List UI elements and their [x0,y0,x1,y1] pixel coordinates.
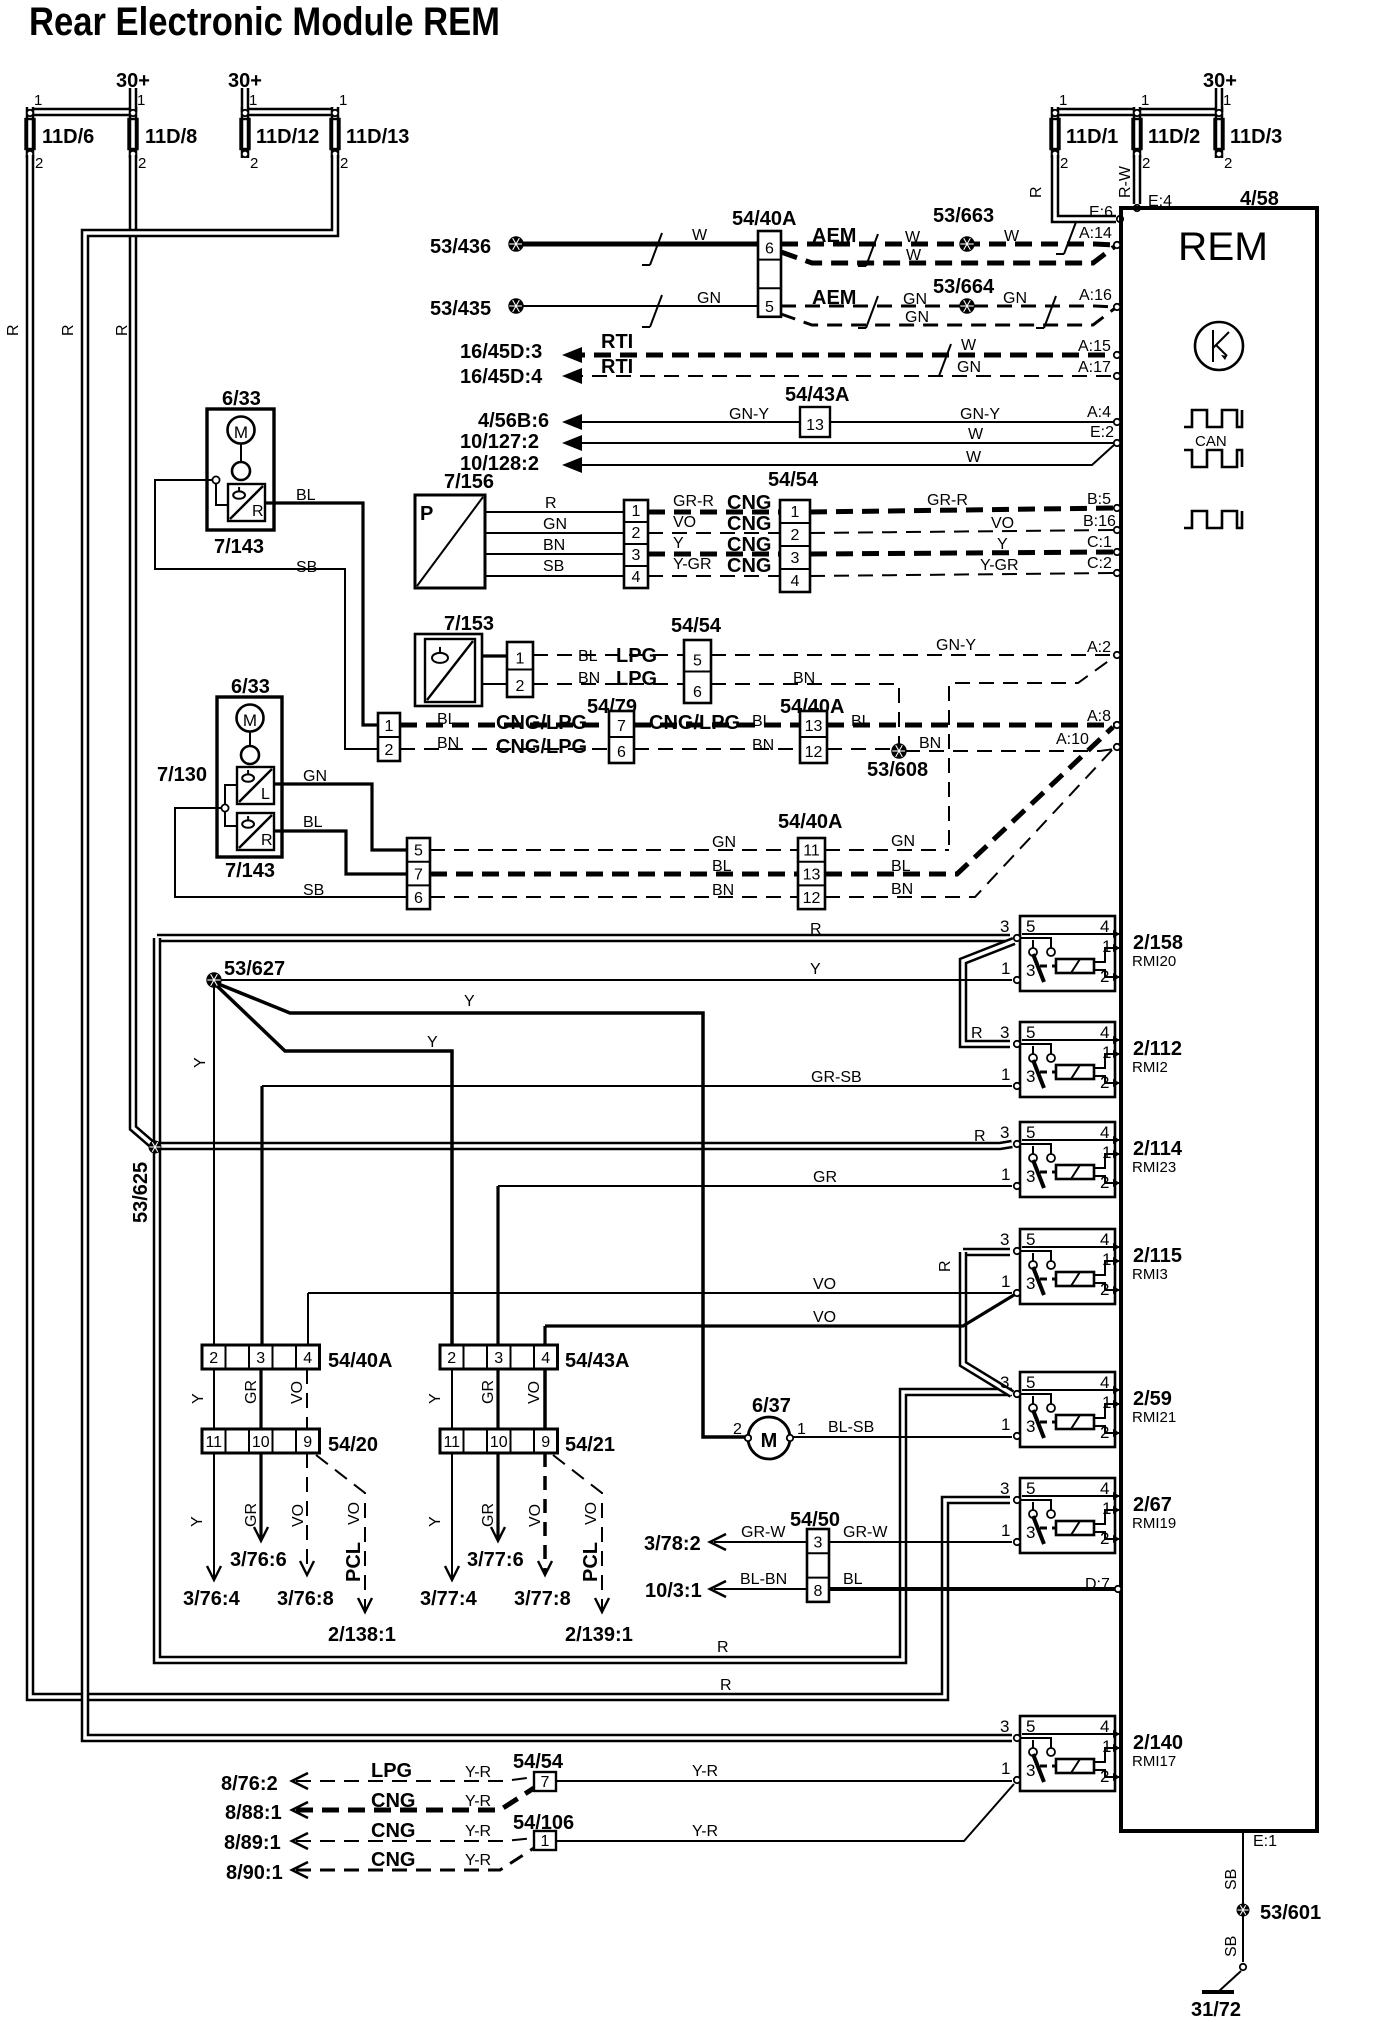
svg-text:4: 4 [1100,917,1109,936]
svg-text:R: R [261,832,273,849]
svg-text:GN-Y: GN-Y [729,406,769,423]
svg-text:CNG/LPG: CNG/LPG [496,736,587,758]
svg-text:Y: Y [192,1057,209,1068]
svg-text:1: 1 [1223,92,1231,109]
svg-text:GR-W: GR-W [843,1524,888,1541]
svg-text:R: R [545,495,557,512]
svg-text:2: 2 [1142,155,1150,172]
svg-text:A:4: A:4 [1087,404,1111,421]
svg-text:2: 2 [1100,1073,1109,1092]
svg-text:3: 3 [1000,1717,1009,1736]
svg-text:1: 1 [1059,92,1067,109]
svg-text:1: 1 [1001,1065,1010,1084]
svg-text:GR-R: GR-R [927,492,968,509]
svg-text:2: 2 [385,742,394,759]
svg-text:CNG: CNG [727,513,771,535]
svg-text:1: 1 [34,92,42,109]
svg-text:3/76:4: 3/76:4 [183,1588,241,1610]
svg-text:8/76:2: 8/76:2 [221,1773,278,1795]
svg-text:VO: VO [289,1381,306,1404]
svg-text:2: 2 [632,525,641,542]
svg-text:1: 1 [1102,1393,1111,1412]
svg-text:3: 3 [791,550,800,567]
svg-text:GR-SB: GR-SB [811,1069,862,1086]
svg-text:54/40A: 54/40A [732,208,797,230]
svg-text:6/33: 6/33 [231,676,270,698]
svg-text:11D/2: 11D/2 [1148,126,1200,148]
svg-text:A:14: A:14 [1079,225,1112,242]
svg-text:13: 13 [803,866,821,883]
svg-text:2: 2 [1100,1529,1109,1548]
svg-text:W: W [966,449,982,466]
svg-text:3: 3 [1000,1230,1009,1249]
svg-text:4: 4 [1100,1023,1109,1042]
svg-text:LPG: LPG [616,645,657,667]
svg-text:GN-Y: GN-Y [936,637,976,654]
svg-text:5: 5 [1026,1123,1035,1142]
svg-text:RMI21: RMI21 [1132,1409,1176,1426]
svg-text:Y: Y [427,1516,444,1527]
svg-text:3: 3 [1026,1067,1035,1086]
svg-text:2: 2 [733,1421,742,1438]
svg-text:RTI: RTI [601,331,633,353]
svg-text:54/43A: 54/43A [565,1350,630,1372]
svg-text:1: 1 [1102,1043,1111,1062]
svg-text:SB: SB [543,558,564,575]
svg-text:GN: GN [712,834,736,851]
svg-text:7/143: 7/143 [225,860,275,882]
svg-text:1: 1 [1001,1272,1010,1291]
svg-text:A:15: A:15 [1078,338,1111,355]
svg-text:R: R [717,1639,729,1656]
svg-text:R: R [60,324,77,336]
svg-text:2/139:1: 2/139:1 [565,1624,633,1646]
svg-text:54/43A: 54/43A [785,384,850,406]
svg-text:VO: VO [991,515,1014,532]
svg-text:PCL: PCL [343,1542,365,1582]
svg-text:CNG/LPG: CNG/LPG [496,712,587,734]
svg-text:53/608: 53/608 [867,759,928,781]
svg-text:3/76:6: 3/76:6 [230,1549,287,1571]
svg-text:4: 4 [541,1350,550,1367]
svg-text:1: 1 [632,503,641,520]
svg-text:3: 3 [494,1350,503,1367]
svg-text:R: R [1028,186,1045,198]
svg-text:M: M [761,1430,778,1452]
svg-text:VO: VO [813,1276,836,1293]
svg-text:7: 7 [617,718,626,735]
svg-text:3: 3 [1000,1479,1009,1498]
svg-text:54/54: 54/54 [671,615,722,637]
svg-text:3: 3 [1026,961,1035,980]
svg-text:3: 3 [1000,1023,1009,1042]
svg-text:W: W [961,337,977,354]
svg-text:2: 2 [1100,1280,1109,1299]
svg-text:16/45D:3: 16/45D:3 [460,341,542,363]
svg-text:A:10: A:10 [1056,731,1089,748]
svg-text:VO: VO [673,514,696,531]
svg-text:VO: VO [583,1502,600,1525]
svg-text:BL-BN: BL-BN [740,1571,787,1588]
svg-text:1: 1 [1102,1499,1111,1518]
svg-text:BN: BN [752,737,774,754]
svg-text:4: 4 [1100,1479,1109,1498]
svg-text:8/89:1: 8/89:1 [224,1832,281,1854]
svg-text:BN: BN [543,537,565,554]
svg-text:2: 2 [1100,1423,1109,1442]
svg-text:3: 3 [1026,1417,1035,1436]
svg-text:B:5: B:5 [1087,491,1111,508]
svg-text:AEM: AEM [812,225,856,247]
svg-text:A:2: A:2 [1087,639,1111,656]
svg-text:54/40A: 54/40A [328,1350,393,1372]
svg-text:R: R [720,1677,732,1694]
svg-text:BL: BL [303,814,323,831]
svg-text:M: M [243,711,257,730]
svg-text:2/114: 2/114 [1133,1138,1183,1160]
svg-text:Y-GR: Y-GR [980,557,1019,574]
svg-text:5: 5 [693,653,702,670]
svg-text:7/156: 7/156 [444,471,494,493]
svg-text:9: 9 [541,1434,550,1451]
svg-text:R: R [252,503,264,520]
svg-text:6: 6 [693,684,702,701]
svg-text:1: 1 [1001,959,1010,978]
svg-text:Rear Electronic Module REM: Rear Electronic Module REM [29,0,500,44]
svg-text:3: 3 [1026,1167,1035,1186]
svg-text:R: R [5,324,22,336]
svg-text:7: 7 [414,866,423,883]
svg-text:GN: GN [903,291,927,308]
svg-text:5: 5 [1026,1230,1035,1249]
svg-text:1: 1 [791,504,800,521]
svg-text:REM: REM [1178,225,1268,269]
svg-text:GN: GN [543,516,567,533]
svg-text:CNG: CNG [371,1849,415,1871]
svg-text:BN: BN [437,735,459,752]
svg-text:E:6: E:6 [1089,204,1113,221]
svg-text:5: 5 [1026,1023,1035,1042]
svg-text:W: W [905,229,921,246]
svg-text:4: 4 [1100,1230,1109,1249]
svg-text:16/45D:4: 16/45D:4 [460,366,543,388]
svg-text:RMI19: RMI19 [1132,1515,1176,1532]
svg-text:BL: BL [437,711,457,728]
svg-text:A:16: A:16 [1079,287,1112,304]
svg-text:2/67: 2/67 [1133,1494,1172,1516]
svg-text:3: 3 [1000,1373,1009,1392]
svg-text:53/663: 53/663 [933,205,994,227]
svg-text:10: 10 [490,1434,508,1451]
svg-text:3: 3 [814,1534,823,1551]
svg-text:4: 4 [1100,1373,1109,1392]
svg-text:5: 5 [414,843,423,860]
svg-text:11D/3: 11D/3 [1230,126,1282,148]
svg-text:1: 1 [249,92,257,109]
svg-text:Y: Y [810,961,821,978]
svg-text:8/88:1: 8/88:1 [225,1802,282,1824]
svg-text:1: 1 [541,1833,550,1850]
svg-text:7: 7 [541,1774,550,1791]
svg-text:13: 13 [805,718,823,735]
svg-text:R: R [974,1128,986,1145]
svg-text:RMI23: RMI23 [1132,1159,1176,1176]
svg-text:VO: VO [526,1381,543,1404]
svg-text:BL: BL [712,858,732,875]
svg-text:2: 2 [516,678,525,695]
svg-text:6: 6 [765,241,774,258]
svg-text:53/627: 53/627 [224,958,285,980]
svg-text:11D/13: 11D/13 [346,126,409,148]
svg-text:2/112: 2/112 [1133,1038,1182,1060]
svg-text:3: 3 [1026,1274,1035,1293]
svg-text:CNG: CNG [371,1790,415,1812]
svg-text:BN: BN [793,670,815,687]
svg-text:53/601: 53/601 [1260,1902,1321,1924]
svg-text:BL: BL [752,713,772,730]
svg-text:7/143: 7/143 [214,536,264,558]
svg-text:1: 1 [1102,1737,1111,1756]
svg-text:2: 2 [1224,155,1232,172]
svg-text:4: 4 [632,569,641,586]
svg-text:1: 1 [1001,1521,1010,1540]
svg-text:R: R [937,1260,954,1272]
svg-text:BL-SB: BL-SB [828,1419,874,1436]
svg-text:BN: BN [712,882,734,899]
svg-text:GR: GR [480,1503,497,1527]
svg-text:Y: Y [427,1034,438,1051]
svg-text:11D/6: 11D/6 [42,126,94,148]
svg-text:RMI20: RMI20 [1132,953,1176,970]
svg-text:Y-R: Y-R [465,1852,491,1869]
svg-text:9: 9 [303,1434,312,1451]
svg-text:Y: Y [427,1393,444,1404]
svg-text:5: 5 [1026,1373,1035,1392]
svg-text:GR: GR [243,1380,260,1404]
svg-text:CAN: CAN [1195,433,1227,450]
svg-text:2: 2 [35,155,43,172]
svg-text:3: 3 [1000,1123,1009,1142]
svg-text:Y: Y [673,535,684,552]
svg-text:1: 1 [1102,937,1111,956]
svg-text:VO: VO [290,1504,307,1527]
svg-text:53/436: 53/436 [430,236,491,258]
svg-text:11: 11 [803,843,820,860]
svg-text:54/54: 54/54 [513,1751,564,1773]
svg-text:3/77:8: 3/77:8 [514,1588,571,1610]
svg-text:Y: Y [997,536,1008,553]
svg-text:AEM: AEM [812,287,856,309]
svg-text:1: 1 [1001,1165,1010,1184]
svg-text:6/33: 6/33 [222,388,261,410]
svg-text:VO: VO [346,1502,363,1525]
svg-text:10: 10 [252,1434,270,1451]
svg-text:Y-R: Y-R [465,1793,491,1810]
svg-text:Y-R: Y-R [465,1764,491,1781]
svg-text:VO: VO [813,1309,836,1326]
svg-text:GR: GR [480,1380,497,1404]
svg-text:1: 1 [1102,1250,1111,1269]
svg-text:5: 5 [765,299,774,316]
svg-text:2: 2 [1100,967,1109,986]
svg-text:Y-R: Y-R [465,1823,491,1840]
svg-text:31/72: 31/72 [1191,1999,1241,2021]
svg-text:53/435: 53/435 [430,298,491,320]
svg-text:10/3:1: 10/3:1 [645,1580,702,1602]
svg-text:3/76:8: 3/76:8 [277,1588,334,1610]
svg-text:A:8: A:8 [1087,708,1111,725]
svg-text:7/130: 7/130 [157,764,207,786]
svg-text:D:7: D:7 [1085,1576,1110,1593]
svg-text:2/158: 2/158 [1133,932,1183,954]
svg-text:6/37: 6/37 [752,1395,791,1417]
svg-text:4: 4 [1100,1123,1109,1142]
svg-text:RMI17: RMI17 [1132,1753,1176,1770]
svg-text:Y-GR: Y-GR [673,556,712,573]
svg-text:2/59: 2/59 [1133,1388,1172,1410]
svg-text:7/153: 7/153 [444,613,494,635]
svg-text:5: 5 [1026,917,1035,936]
svg-text:R: R [810,921,822,938]
svg-text:BL: BL [891,858,911,875]
svg-text:SB: SB [1223,1936,1240,1957]
svg-text:LPG: LPG [371,1760,412,1782]
svg-text:3/77:4: 3/77:4 [420,1588,478,1610]
svg-text:L: L [261,786,270,803]
svg-text:3: 3 [256,1350,265,1367]
svg-text:6: 6 [617,744,626,761]
svg-text:W: W [1004,228,1020,245]
svg-text:3: 3 [1000,917,1009,936]
svg-text:SB: SB [1223,1869,1240,1890]
svg-text:GN: GN [957,359,981,376]
svg-text:GR: GR [243,1503,260,1527]
svg-text:BN: BN [891,881,913,898]
svg-text:CNG: CNG [371,1820,415,1842]
svg-text:GR-R: GR-R [673,493,714,510]
svg-text:11D/8: 11D/8 [145,126,197,148]
svg-text:5: 5 [1026,1479,1035,1498]
svg-text:BN: BN [578,670,600,687]
svg-text:11: 11 [443,1434,460,1451]
svg-text:2: 2 [1060,155,1068,172]
svg-text:2: 2 [1100,1767,1109,1786]
svg-text:C:1: C:1 [1087,534,1112,551]
svg-text:GR: GR [813,1169,837,1186]
svg-text:RMI2: RMI2 [1132,1059,1168,1076]
svg-text:1: 1 [1001,1415,1010,1434]
svg-text:54/21: 54/21 [565,1434,615,1456]
svg-text:4: 4 [303,1350,312,1367]
svg-text:E:2: E:2 [1090,424,1114,441]
svg-text:2/140: 2/140 [1133,1732,1183,1754]
svg-text:11D/12: 11D/12 [256,126,319,148]
svg-text:GR-W: GR-W [741,1524,786,1541]
svg-text:2: 2 [791,527,800,544]
svg-text:GN: GN [905,309,929,326]
svg-text:2: 2 [250,155,258,172]
svg-text:C:2: C:2 [1087,555,1112,572]
svg-text:1: 1 [1141,92,1149,109]
svg-text:3: 3 [1026,1761,1035,1780]
svg-text:4/56B:6: 4/56B:6 [478,410,549,432]
svg-text:R: R [971,1025,983,1042]
svg-text:2: 2 [447,1350,456,1367]
svg-text:BL: BL [843,1571,863,1588]
svg-text:E:1: E:1 [1253,1833,1277,1850]
svg-text:Y: Y [464,993,475,1010]
svg-text:R-W: R-W [1117,165,1134,198]
svg-text:11: 11 [205,1434,222,1451]
svg-text:2: 2 [340,155,348,172]
svg-text:12: 12 [805,744,823,761]
svg-text:8/90:1: 8/90:1 [226,1862,283,1884]
svg-text:3: 3 [1026,1523,1035,1542]
svg-text:W: W [968,426,984,443]
svg-text:GN: GN [303,768,327,785]
svg-text:Y-R: Y-R [692,1823,718,1840]
svg-text:6: 6 [414,890,423,907]
svg-text:CNG/LPG: CNG/LPG [649,712,740,734]
svg-text:SB: SB [296,559,317,576]
svg-text:SB: SB [303,882,324,899]
svg-text:CNG: CNG [727,492,771,514]
svg-text:2/115: 2/115 [1133,1245,1182,1267]
svg-text:1: 1 [339,92,347,109]
svg-text:BL: BL [851,713,871,730]
svg-text:R: R [114,324,131,336]
svg-text:54/54: 54/54 [768,469,819,491]
svg-text:A:17: A:17 [1078,359,1111,376]
svg-text:RMI3: RMI3 [1132,1266,1168,1283]
svg-text:CNG: CNG [727,534,771,556]
svg-text:BL: BL [578,648,598,665]
svg-text:13: 13 [806,417,824,434]
svg-text:5: 5 [1026,1717,1035,1736]
svg-text:2: 2 [209,1350,218,1367]
svg-text:4: 4 [1100,1717,1109,1736]
svg-text:3: 3 [632,547,641,564]
svg-text:GN: GN [697,290,721,307]
svg-text:M: M [234,423,248,442]
svg-text:W: W [692,227,708,244]
svg-text:1: 1 [1001,1759,1010,1778]
svg-text:4: 4 [791,573,800,590]
svg-text:1: 1 [1102,1143,1111,1162]
svg-text:1: 1 [385,718,394,735]
svg-text:1: 1 [137,92,145,109]
svg-text:GN: GN [1003,290,1027,307]
svg-text:8: 8 [814,1583,823,1600]
svg-text:53/664: 53/664 [933,276,995,298]
svg-text:53/625: 53/625 [130,1162,152,1223]
svg-text:2/138:1: 2/138:1 [328,1624,396,1646]
svg-text:W: W [906,247,922,264]
svg-text:GN: GN [891,833,915,850]
svg-text:B:16: B:16 [1083,513,1116,530]
svg-text:RTI: RTI [601,356,633,378]
svg-text:P: P [420,503,433,525]
svg-text:Y: Y [190,1393,207,1404]
svg-text:Y-R: Y-R [692,1763,718,1780]
svg-text:2: 2 [138,155,146,172]
svg-text:12: 12 [803,890,821,907]
svg-text:Y: Y [189,1516,206,1527]
svg-text:54/40A: 54/40A [778,811,843,833]
svg-text:10/127:2: 10/127:2 [460,431,539,453]
svg-text:BN: BN [919,735,941,752]
svg-text:VO: VO [527,1504,544,1527]
